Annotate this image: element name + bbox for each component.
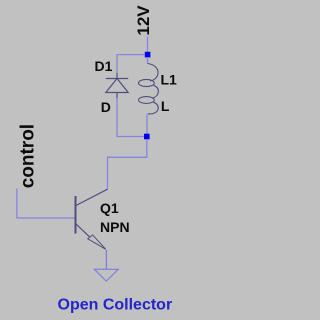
wire bottom node to collector — [108, 139, 147, 189]
wire diode to bottom node — [117, 98, 145, 137]
node bottom junction — [144, 134, 150, 140]
wire control to base — [17, 189, 75, 219]
svg-text:Open Collector: Open Collector — [58, 297, 173, 314]
svg-text:control: control — [17, 124, 38, 188]
diode D1 — [106, 73, 128, 98]
ground — [94, 269, 118, 281]
node top junction — [145, 52, 151, 58]
inductor L1 coil — [139, 64, 159, 114]
svg-text:NPN: NPN — [100, 219, 130, 235]
svg-text:D: D — [101, 99, 111, 115]
svg-text:12V: 12V — [134, 5, 153, 36]
wire emitter to ground — [105, 250, 107, 269]
svg-text:D1: D1 — [95, 58, 113, 74]
wire 12V to top node — [147, 37, 149, 53]
wire top node to inductor — [147, 57, 149, 64]
wire inductor to bottom node — [146, 114, 148, 135]
wire top node to diode branch — [117, 55, 145, 73]
svg-text:L: L — [161, 98, 170, 114]
transistor Q1 — [76, 189, 108, 249]
svg-text:L1: L1 — [161, 72, 178, 88]
svg-text:Q1: Q1 — [100, 200, 119, 216]
